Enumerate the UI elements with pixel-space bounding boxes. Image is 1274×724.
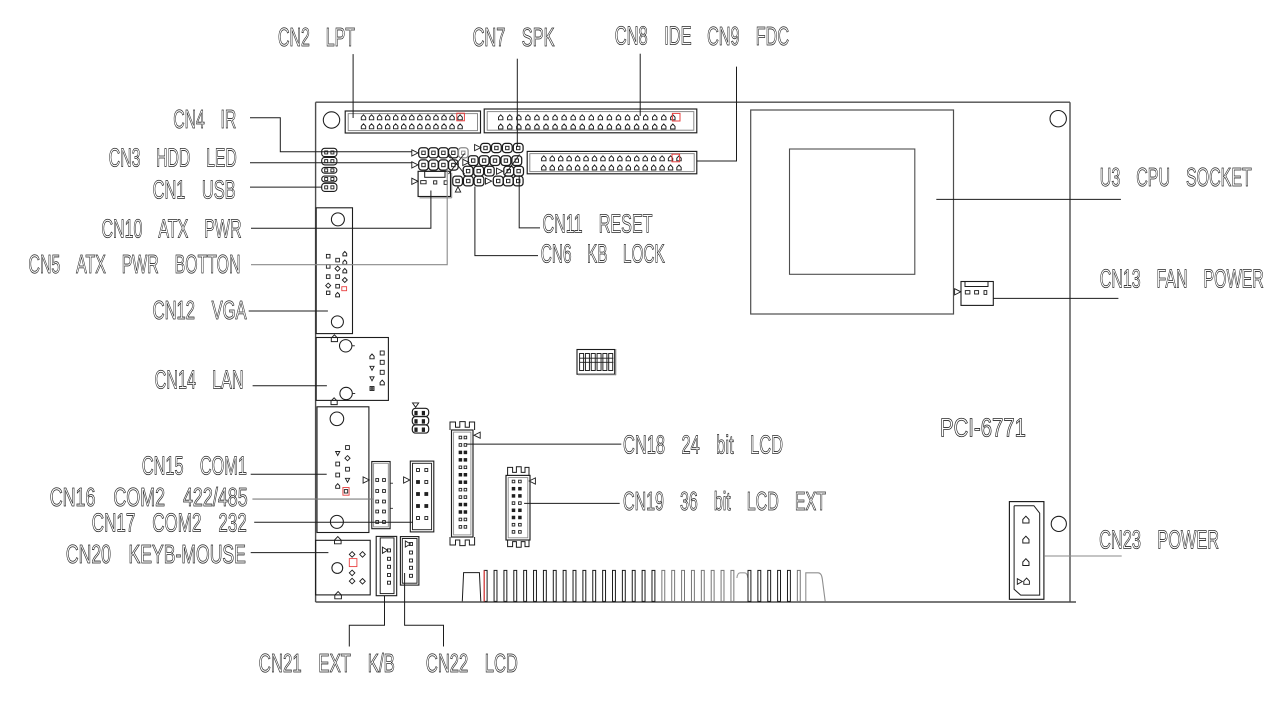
leader CN8: [639, 54, 641, 116]
connector CN9 FDC: [527, 151, 697, 173]
leader CN2: [352, 54, 354, 118]
edge connector teeth group B: [748, 570, 800, 601]
pin1 arrow CN18: [474, 432, 480, 438]
LAN keying marks: [331, 335, 338, 405]
COM1 red mark: [343, 488, 349, 496]
VGA red mark: [342, 287, 347, 291]
svg-text:CN8 IDE: CN8 IDE: [615, 21, 692, 51]
pin 1 marker CN9: [672, 154, 680, 162]
pin 1 marker CN2: [457, 113, 465, 121]
connector CN21 EXT K/B: [376, 536, 397, 595]
svg-text:CN11 RESET: CN11 RESET: [543, 209, 653, 239]
svg-text:CN2 LPT: CN2 LPT: [278, 22, 355, 52]
edge connector fingers: [462, 573, 481, 602]
svg-text:CN12 VGA: CN12 VGA: [153, 295, 247, 325]
leader CN18: [466, 443, 621, 445]
leader CN16: [252, 498, 373, 500]
svg-text:CN19 36 bit LCD EXT: CN19 36 bit LCD EXT: [623, 486, 826, 516]
connector CN19 36 bit LCD EXT: [506, 467, 530, 547]
svg-text:CN20 KEYB-MOUSE: CN20 KEYB-MOUSE: [66, 539, 246, 569]
leader CN4: [250, 118, 412, 152]
svg-text:CN15 COM1: CN15 COM1: [142, 451, 247, 481]
svg-text:CN1 USB: CN1 USB: [153, 175, 236, 205]
KEYB pins: [349, 552, 365, 585]
pin 1 marker CN8: [672, 113, 680, 121]
leader CN6: [475, 187, 538, 256]
COM1 pin field: [336, 446, 351, 493]
leader CN12: [249, 310, 328, 312]
mounting hole top-left: [323, 112, 339, 128]
svg-text:CN3 HDD LED: CN3 HDD LED: [109, 143, 237, 173]
leader CN14: [253, 385, 327, 387]
board outline: [316, 102, 1076, 602]
connector CN2 LPT: [345, 111, 480, 133]
jumper row CN7 SPK: [475, 143, 523, 152]
leader CN20: [251, 552, 329, 554]
edge connector right shoulder: [806, 573, 825, 602]
leader CN23: [1044, 555, 1122, 557]
leader CN9: [697, 67, 737, 161]
leader CN7: [516, 59, 518, 147]
leader CN1: [250, 186, 322, 188]
connector CN14 LAN: [316, 338, 388, 401]
leader U3: [936, 198, 1121, 200]
svg-text:CN9 FDC: CN9 FDC: [707, 21, 789, 51]
KEYB keying marks: [335, 537, 342, 599]
connector CN12 VGA: [316, 208, 352, 334]
LAN pin grid: [370, 351, 384, 391]
leader CN3: [250, 162, 412, 164]
pin1 arrow CN17: [404, 477, 410, 483]
leader CN17: [254, 521, 413, 523]
CPU socket U3: [751, 110, 954, 314]
svg-text:CN10 ATX PWR: CN10 ATX PWR: [102, 214, 242, 244]
connector CN4 IR block: [322, 148, 337, 191]
cluster cross lines: [449, 154, 520, 175]
VGA pin field: [326, 252, 348, 297]
leader CN19: [524, 502, 620, 504]
svg-text:CN7 SPK: CN7 SPK: [473, 22, 555, 52]
pin1 arrow CN19: [529, 478, 535, 484]
svg-text:CN4 IR: CN4 IR: [173, 104, 236, 134]
leader CN15: [251, 473, 327, 475]
connector CN23 POWER: [1009, 502, 1044, 600]
connector CN22 LCD: [400, 537, 419, 586]
leader CN13: [993, 297, 1118, 299]
edge connector key notch: [737, 573, 748, 578]
pin1 arrow CN16: [363, 477, 369, 483]
leader CN11: [519, 175, 540, 228]
mounting hole top-right: [1050, 111, 1066, 127]
jumper header row CN4: [412, 148, 468, 158]
jumper row 2 cluster: [463, 156, 522, 166]
connector CN18 24 bit LCD: [450, 422, 475, 546]
leader CN10: [251, 191, 431, 229]
jumper row 4 CN6 KB LOCK pins: [453, 176, 523, 186]
connector CN20 KEYB-MOUSE: [316, 540, 371, 595]
DIP switch SW1: [577, 349, 616, 375]
edge connector pin A1 red mark: [483, 570, 485, 601]
svg-text:U3 CPU SOCKET: U3 CPU SOCKET: [1100, 162, 1252, 192]
polarity triangle: [455, 187, 460, 192]
connector CN16 COM2 422/485: [372, 462, 393, 529]
connector CN8 IDE: [484, 109, 697, 133]
jumper block J1: [412, 403, 428, 433]
connector CN10 ATX PWR: [412, 171, 452, 198]
edge connector teeth group A: [484, 570, 734, 601]
mounting hole bottom-right: [1051, 516, 1066, 531]
svg-text:CN17 COM2 232: CN17 COM2 232: [92, 508, 247, 538]
connector CN13 FAN POWER: [955, 282, 994, 306]
svg-text:CN21 EXT K/B: CN21 EXT K/B: [259, 648, 395, 678]
connector CN17 COM2 232: [410, 461, 434, 532]
connector CN15 COM1: [317, 407, 369, 533]
svg-text:CN13 FAN POWER: CN13 FAN POWER: [1100, 264, 1264, 294]
jumper header row CN3: [412, 160, 458, 170]
svg-text:CN23 POWER: CN23 POWER: [1099, 525, 1219, 555]
jumper row 3 CN11 RESET pins: [463, 166, 523, 176]
svg-text:CN22 LCD: CN22 LCD: [426, 648, 518, 678]
KEYB red mark: [349, 559, 357, 567]
leader CN22: [405, 573, 444, 647]
leader CN5: [251, 168, 447, 265]
leader CN21: [349, 596, 384, 647]
svg-text:CN6 KB LOCK: CN6 KB LOCK: [541, 239, 665, 269]
svg-text:CN5 ATX PWR BOTTON: CN5 ATX PWR BOTTON: [29, 249, 241, 279]
svg-text:PCI-6771: PCI-6771: [940, 413, 1026, 443]
svg-text:CN18 24 bit LCD: CN18 24 bit LCD: [623, 430, 783, 460]
svg-text:CN14 LAN: CN14 LAN: [155, 365, 244, 395]
